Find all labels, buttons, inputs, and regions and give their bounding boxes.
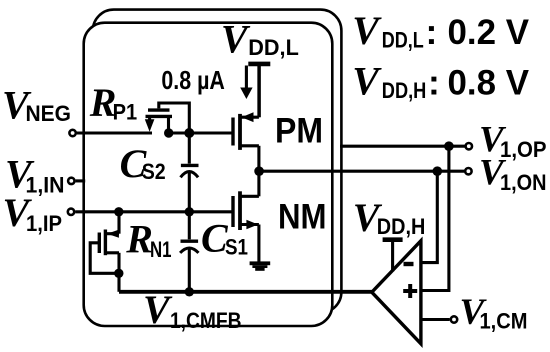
resistor RP1 (diode-connected PMOS) [145, 103, 190, 133]
label CS1 [201, 215, 248, 260]
node PM gate / CS2 top [184, 128, 194, 138]
wire V1,OP to op-amp + input [421, 146, 449, 290]
ground [250, 261, 271, 270]
label RN1 [125, 217, 171, 262]
svg-text:DD,H: DD,H [382, 78, 427, 103]
node V1,IP x CS1 [185, 207, 194, 216]
node RP1 drain [164, 128, 173, 137]
op-amp minus sign [404, 262, 414, 266]
wire V1,ON output line [259, 170, 464, 173]
wire V1,CMFB line [119, 290, 372, 294]
svg-text:S2: S2 [142, 159, 166, 184]
label VDD,H supply [353, 195, 426, 240]
wire VDD,H to op-amp [391, 241, 394, 272]
legend line 1: VDD,L : 0.2 V [352, 8, 529, 53]
label CS2 [120, 141, 166, 186]
node V1,IP x RN1 [114, 207, 123, 216]
node V1,OP x CMFB sense [444, 141, 454, 151]
legend line 2: VDD,H : 0.8 V [352, 59, 529, 104]
node RN1 gate loop [114, 269, 123, 278]
wire V1,IN stub [76, 179, 86, 182]
wire VDD,L to PM source [258, 66, 261, 117]
svg-text:R: R [125, 217, 153, 262]
label V1,IN [5, 152, 65, 198]
svg-text:V: V [143, 287, 173, 332]
terminal V1,IP [68, 209, 74, 215]
node V1,ON x CMFB sense [433, 166, 443, 176]
label V1,CM [460, 292, 528, 334]
svg-text:DD,H: DD,H [377, 214, 426, 239]
svg-text:1,IN: 1,IN [26, 173, 65, 198]
wire V1,CM to op-amp [421, 318, 450, 321]
svg-text:1,CM: 1,CM [480, 309, 528, 334]
svg-text::: : [428, 63, 440, 103]
inner instance box (front copy) [84, 23, 333, 326]
supply VDD,H bar [383, 237, 403, 242]
svg-text:P1: P1 [113, 100, 138, 125]
wire RP1 drain to PM gate [169, 131, 234, 134]
op-amp U1 (CMFB amplifier) [372, 241, 421, 344]
wire V1,ON to op-amp - input [421, 171, 437, 262]
capacitor CS1 [180, 212, 198, 292]
wire V1,OP output line [340, 145, 465, 148]
label V1,ON [479, 153, 547, 195]
svg-text:0.8 µA: 0.8 µA [161, 65, 225, 95]
label VNEG [2, 82, 71, 127]
svg-text:1,IP: 1,IP [26, 211, 62, 236]
svg-text:1,OP: 1,OP [500, 137, 547, 162]
current source 0.8uA arrow [240, 66, 252, 100]
node PM/NM drain output [254, 166, 264, 176]
terminal V1,CM [451, 316, 457, 322]
label VDD,L supply [221, 17, 299, 62]
label RP1 [89, 80, 137, 125]
svg-text:N1: N1 [150, 237, 172, 262]
label V1,CMFB [143, 287, 242, 333]
svg-text:0.8 V: 0.8 V [448, 63, 530, 103]
svg-text:DD,L: DD,L [248, 35, 298, 60]
terminal V1,IN [68, 178, 74, 184]
terminal VNEG [69, 130, 75, 136]
terminal V1,OP [466, 143, 472, 149]
label V1,IP [3, 190, 63, 236]
svg-text:V: V [352, 59, 382, 104]
svg-text:1,CMFB: 1,CMFB [170, 308, 242, 333]
wire VNEG to RP1 source [77, 131, 152, 134]
svg-text:DD,L: DD,L [382, 28, 424, 53]
op-amp plus sign [403, 284, 417, 298]
svg-text:0.2 V: 0.2 V [448, 12, 530, 52]
svg-text:PM: PM [275, 111, 323, 151]
terminal V1,ON [465, 168, 471, 174]
svg-text:S1: S1 [225, 235, 248, 260]
svg-text::: : [426, 12, 438, 52]
svg-text:V: V [221, 17, 251, 62]
svg-text:NM: NM [278, 197, 327, 237]
node CMFB x CS1 [185, 287, 194, 296]
wire V1,IP to NM gate [75, 210, 233, 213]
svg-text:V: V [352, 8, 382, 53]
transistor NM (NMOS) [233, 171, 259, 261]
svg-text:NEG: NEG [26, 101, 72, 126]
resistor RN1 (diode-connected NMOS) [90, 212, 119, 292]
transistor PM (PMOS) [233, 66, 259, 171]
capacitor CS2 [181, 133, 199, 212]
label V1,OP [479, 120, 547, 162]
supply VDD,L bar [248, 62, 270, 67]
svg-text:1,ON: 1,ON [500, 170, 547, 195]
outer instance box (back copy) [93, 10, 342, 313]
